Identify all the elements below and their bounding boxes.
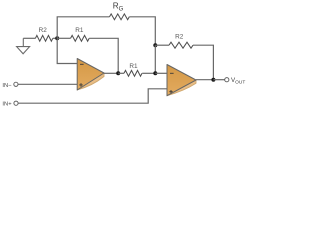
resistor R2 (left)	[35, 35, 52, 41]
svg-text:R2: R2	[175, 34, 184, 41]
terminal IN+ circle	[14, 101, 18, 105]
wire IN+ to A2 non-inverting input	[18, 89, 167, 103]
terminal IN- circle	[14, 82, 18, 86]
svg-text:RG: RG	[113, 2, 124, 13]
wire node B to R2 right	[155, 44, 169, 46]
node D junction dot	[116, 71, 120, 75]
svg-text:VOUT: VOUT	[231, 77, 245, 86]
wire R1 right to node C	[142, 72, 155, 74]
wire node C to A2 inverting input	[155, 72, 167, 74]
node B junction dot	[153, 43, 157, 47]
wire A2 output to node E	[196, 79, 213, 81]
wire R2 right down to output node	[193, 45, 213, 79]
resistor R2 (right)	[169, 42, 193, 48]
node E junction dot	[211, 78, 215, 82]
svg-text:R1: R1	[75, 27, 84, 34]
svg-text:IN−: IN−	[2, 83, 12, 89]
op-amp U1	[77, 59, 104, 91]
wire A1 output to node D	[104, 72, 118, 74]
wire IN- to A1 non-inverting input	[18, 83, 77, 85]
wire node B down to node C	[154, 45, 156, 73]
node C junction dot	[153, 71, 157, 75]
terminal VOUT circle	[225, 78, 229, 82]
wire R2 to node A	[53, 37, 57, 39]
resistor R1 (left)	[57, 37, 70, 39]
resistor R1 (right)	[118, 72, 124, 74]
wire RG to node B	[129, 17, 155, 45]
op-amp U2	[167, 65, 196, 96]
wire R1 to A1 output node	[89, 38, 118, 73]
svg-text:R2: R2	[39, 27, 48, 34]
wire ground to R2	[23, 37, 35, 39]
ground	[17, 38, 30, 54]
svg-text:IN+: IN+	[2, 102, 12, 108]
wire node A down to A1 inverting input	[57, 38, 77, 63]
resistor RG	[110, 14, 130, 20]
wire node E to VOUT terminal	[213, 79, 224, 81]
svg-text:R1: R1	[129, 63, 138, 70]
wire node A up to RG	[57, 17, 109, 39]
node A junction dot	[55, 36, 59, 40]
